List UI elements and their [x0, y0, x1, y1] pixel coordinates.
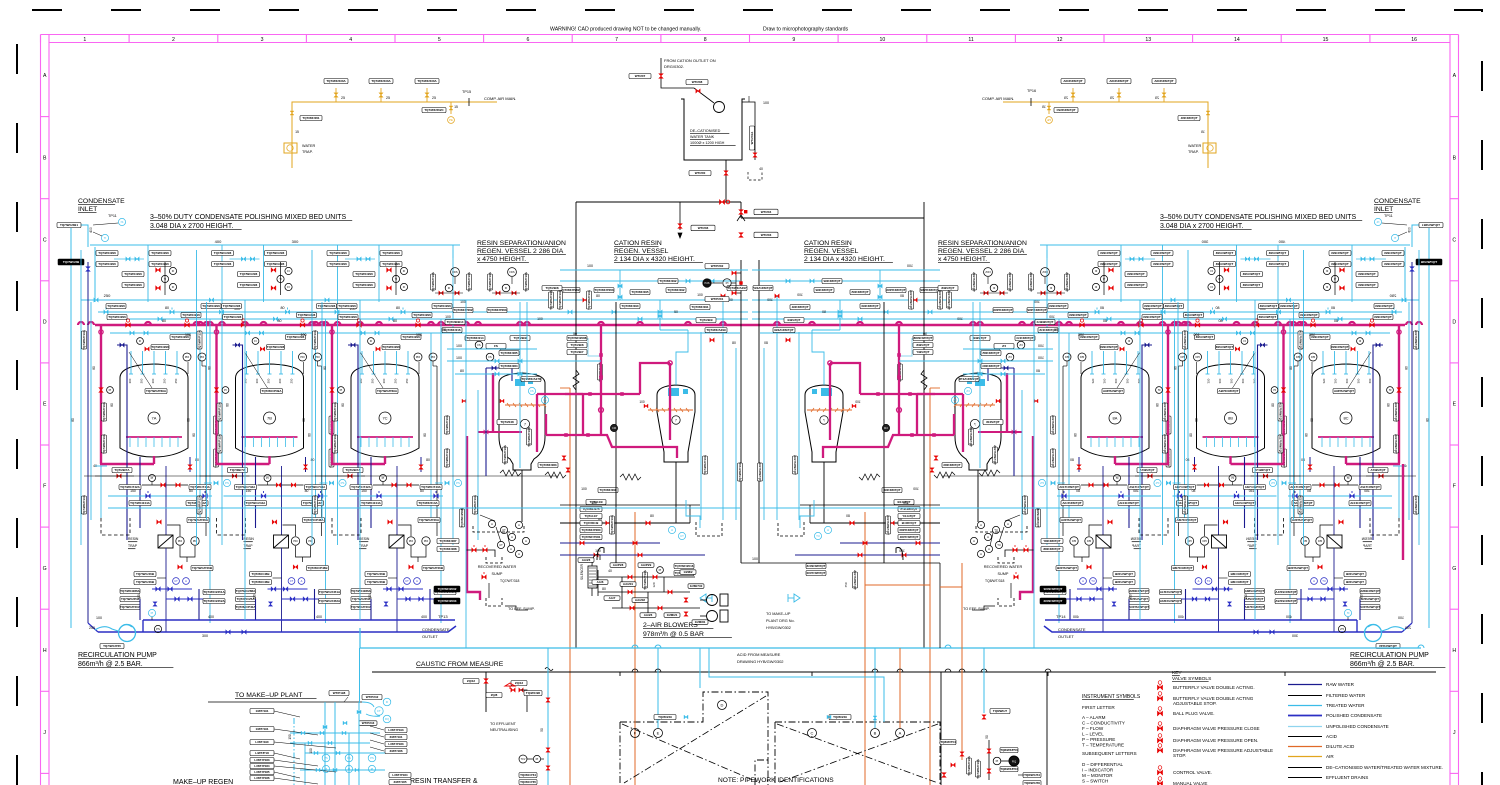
effluent line	[939, 590, 941, 648]
label TQ/WC/765	[519, 780, 537, 785]
svg-text:2 134 DIA x 4320 HEIGHT.: 2 134 DIA x 4320 HEIGHT.	[614, 256, 695, 263]
block top headers	[576, 201, 741, 203]
svg-text:WT/P242: WT/P242	[366, 695, 379, 699]
svg-text:WATER TANK: WATER TANK	[690, 135, 715, 139]
branch 680	[679, 202, 681, 230]
label WT/208	[686, 80, 708, 85]
valve	[653, 575, 657, 579]
svg-text:11: 11	[968, 37, 973, 43]
svg-text:FT: FT	[377, 709, 381, 713]
valve	[684, 715, 688, 719]
svg-text:TQ8/WC/54: TQ8/WC/54	[1024, 773, 1040, 777]
svg-text:5: 5	[438, 37, 441, 43]
label AA/26	[640, 613, 656, 618]
svg-text:TP15: TP15	[462, 90, 471, 94]
pink drawing border (no bottom; cropped)	[41, 34, 1459, 36]
valve	[1157, 696, 1162, 701]
svg-text:B: B	[43, 155, 47, 161]
svg-text:M – MONITOR: M – MONITOR	[1082, 773, 1113, 778]
svg-text:3.048 DIA x 2700 HEIGHT.: 3.048 DIA x 2700 HEIGHT.	[150, 223, 233, 230]
svg-text:L/WT/P183: L/WT/P183	[388, 742, 404, 746]
svg-text:H: H	[43, 648, 47, 654]
svg-text:RECOVERED WATER: RECOVERED WATER	[478, 565, 517, 569]
make-up network (cyan)	[208, 701, 362, 703]
svg-text:WT/P202: WT/P202	[711, 264, 724, 268]
svg-text:FIQ: FIQ	[1012, 759, 1016, 763]
label L/WT/P183	[385, 742, 407, 747]
svg-text:RESIN SEPARATION/ANION: RESIN SEPARATION/ANION	[477, 240, 566, 247]
valve	[724, 171, 729, 176]
svg-text:C: C	[43, 237, 47, 243]
valve	[320, 731, 324, 735]
label L/WT/P186	[250, 776, 274, 781]
instrument PI	[345, 765, 352, 772]
svg-text:TREATED WATER: TREATED WATER	[1326, 703, 1365, 708]
label TQ7/WF/P13A	[967, 755, 972, 776]
label TQ8/WF/P63	[1000, 767, 1018, 772]
valve	[982, 715, 986, 719]
svg-text:COMP. AIR MAIN.: COMP. AIR MAIN.	[484, 96, 516, 101]
valve	[873, 716, 877, 720]
svg-text:4: 4	[349, 37, 352, 43]
label 1/2M/21	[664, 613, 680, 618]
instrument PdS	[703, 279, 711, 287]
svg-text:DILUTE ACID: DILUTE ACID	[1326, 744, 1355, 749]
svg-text:DE–CATIONISED WATER/TREATED: DE–CATIONISED WATER/TREATED WATER MIXTUR…	[1326, 765, 1443, 770]
svg-text:PdS: PdS	[705, 281, 710, 285]
instrument 7A	[148, 412, 160, 424]
svg-text:2Q/13: 2Q/13	[515, 681, 524, 685]
caustic feed to make-up grid	[359, 648, 361, 703]
svg-text:1000Ø x 1200 HIGH: 1000Ø x 1200 HIGH	[690, 141, 725, 145]
label WT/201A	[750, 126, 755, 150]
svg-text:CONTROL VALVE.: CONTROL VALVE.	[1173, 770, 1212, 775]
label WT/P198	[329, 691, 349, 696]
svg-text:A – ALARM: A – ALARM	[1082, 715, 1106, 720]
svg-text:3/WT/186: 3/WT/186	[389, 749, 402, 753]
X diagonals	[622, 724, 760, 783]
svg-text:TQ/W/249: TQ/W/249	[833, 715, 847, 719]
svg-text:SUMP: SUMP	[492, 572, 503, 576]
svg-text:TO MAKE–UP: TO MAKE–UP	[766, 612, 791, 616]
svg-text:C: C	[811, 731, 814, 736]
svg-text:WT/203: WT/203	[761, 233, 772, 237]
svg-text:TQ/WC/765: TQ/WC/765	[520, 780, 536, 784]
label L/WT/P185	[250, 770, 274, 775]
svg-text:REGEN. VESSEL 2 286 DIA: REGEN. VESSEL 2 286 DIA	[938, 248, 1025, 255]
svg-text:P – PRESSURE: P – PRESSURE	[1082, 737, 1115, 742]
svg-text:SUMP: SUMP	[998, 572, 1009, 576]
svg-text:1/WT/191: 1/WT/191	[255, 709, 268, 713]
instrument PI	[533, 755, 540, 762]
svg-text:INLET: INLET	[78, 206, 97, 213]
instrument F	[631, 729, 640, 738]
svg-text:3: 3	[261, 37, 264, 43]
svg-text:D – DIFFERENTIAL: D – DIFFERENTIAL	[1082, 762, 1124, 767]
svg-text:TRAP.: TRAP.	[1188, 150, 1199, 154]
ruler rows	[41, 116, 50, 118]
instrument 7B	[264, 412, 276, 424]
instrument PI	[322, 765, 329, 772]
svg-text:TQ/W/249: TQ/W/249	[658, 715, 672, 719]
valve	[342, 731, 346, 735]
label 1/WT/191	[250, 727, 274, 732]
label 1/2M/81	[692, 620, 708, 625]
svg-text:TQ7/WF/P13A: TQ7/WF/P13A	[976, 758, 980, 779]
svg-text:1/2M/740: 1/2M/740	[690, 584, 703, 588]
label 2Q/13	[511, 681, 527, 686]
svg-text:G: G	[43, 566, 47, 572]
instrument PI	[368, 765, 375, 772]
svg-text:8: 8	[704, 37, 707, 43]
svg-text:WT/236: WT/236	[698, 226, 709, 230]
svg-text:RECIRCULATION PUMP: RECIRCULATION PUMP	[78, 652, 157, 659]
valve	[628, 590, 632, 594]
svg-text:TQ8/W/754: TQ8/W/754	[940, 740, 956, 744]
svg-text:TO EFF. SUMP.: TO EFF. SUMP.	[508, 607, 535, 611]
svg-text:50: 50	[540, 728, 544, 732]
svg-text:OUTLET: OUTLET	[1058, 634, 1074, 639]
label TQ/W/249	[829, 715, 851, 720]
svg-text:CAUSTIC FROM MEASURE: CAUSTIC FROM MEASURE	[416, 661, 504, 668]
svg-text:PI: PI	[659, 568, 662, 572]
label L/WT/P184	[389, 773, 411, 778]
svg-text:A: A	[899, 731, 902, 736]
svg-text:NEUTRALISING: NEUTRALISING	[490, 728, 518, 732]
valve	[1157, 726, 1162, 731]
svg-text:978m³/h @ 0.5 BAR: 978m³/h @ 0.5 BAR	[643, 631, 704, 638]
svg-text:DIAPHRAGM VALVE PRESSURE OP: DIAPHRAGM VALVE PRESSURE OPEN.	[1173, 738, 1258, 743]
svg-text:FROM CATION OUTLET ON: FROM CATION OUTLET ON	[664, 58, 716, 63]
svg-text:CATION RESIN: CATION RESIN	[614, 240, 662, 247]
svg-text:13: 13	[1145, 37, 1151, 43]
svg-text:CONDENSATE: CONDENSATE	[1058, 627, 1086, 632]
valve	[678, 224, 683, 229]
valve	[333, 768, 337, 772]
svg-text:INSTRUMENT SYMBOLS: INSTRUMENT SYMBOLS	[1082, 694, 1141, 700]
valve	[684, 612, 688, 616]
svg-text:L/WT/P183: L/WT/P183	[254, 758, 270, 762]
svg-text:DRAWING HYB/GW/0302: DRAWING HYB/GW/0302	[737, 659, 784, 664]
svg-text:FI: FI	[386, 700, 389, 704]
svg-text:Draw to microphotography st: Draw to microphotography standards	[763, 27, 848, 33]
svg-text:1/WT/191: 1/WT/191	[255, 727, 268, 731]
svg-text:RESIN SEPARATION/ANION: RESIN SEPARATION/ANION	[938, 240, 1027, 247]
label WT/P243	[359, 721, 377, 726]
svg-text:8C: 8C	[1343, 416, 1348, 421]
svg-text:2: 2	[172, 37, 175, 43]
instrument FI	[383, 698, 391, 706]
label TQ8/WF/P50	[1000, 748, 1018, 753]
svg-text:HYB/GW/0302: HYB/GW/0302	[766, 626, 791, 630]
label TQ7/WF/P13A	[976, 758, 981, 779]
svg-text:16: 16	[1411, 37, 1417, 43]
svg-text:WATER: WATER	[302, 144, 316, 148]
svg-text:150: 150	[288, 734, 292, 740]
svg-text:L/WT/P18: L/WT/P18	[255, 751, 269, 755]
svg-text:DE–CATIONISED: DE–CATIONISED	[690, 129, 721, 133]
valve	[658, 606, 662, 610]
svg-text:100: 100	[752, 557, 758, 561]
svg-text:INLET: INLET	[1374, 206, 1393, 213]
label AA/201	[620, 582, 636, 587]
svg-text:7B: 7B	[267, 416, 272, 421]
svg-text:WATER: WATER	[1188, 144, 1202, 148]
svg-text:AIR: AIR	[1326, 754, 1334, 759]
svg-text:PI: PI	[371, 767, 374, 771]
svg-text:x 4750 HEIGHT.: x 4750 HEIGHT.	[477, 256, 526, 263]
svg-text:PI: PI	[325, 767, 328, 771]
svg-text:MANUAL VALVE: MANUAL VALVE	[1173, 781, 1207, 785]
svg-text:ACID FROM MEASURE: ACID FROM MEASURE	[737, 652, 781, 657]
svg-text:TCV: TCV	[521, 758, 526, 761]
svg-text:L/WT/P184: L/WT/P184	[392, 773, 408, 777]
svg-text:3.048 DIA x 2700 HEIGHT.: 3.048 DIA x 2700 HEIGHT.	[1160, 223, 1243, 230]
svg-text:2Q/12: 2Q/12	[467, 679, 476, 683]
X-box make-up regen tanks	[620, 692, 768, 785]
svg-text:3/WT/185: 3/WT/185	[393, 780, 406, 784]
label TQ8/WC/56	[1023, 781, 1041, 785]
de-cationised water tank	[681, 99, 745, 160]
valve	[659, 74, 664, 79]
svg-text:DIAPHRAGM VALVE PRESSURE CL: DIAPHRAGM VALVE PRESSURE CLOSE	[1173, 726, 1260, 731]
valve	[546, 748, 550, 752]
svg-text:TQ8/WC/7: TQ8/WC/7	[993, 709, 1007, 713]
svg-text:80: 80	[602, 587, 606, 591]
valve	[827, 715, 831, 719]
svg-text:J: J	[43, 730, 46, 736]
svg-text:866m³/h @ 2.5 BAR.: 866m³/h @ 2.5 BAR.	[78, 661, 143, 668]
label 1/WT/191	[250, 709, 274, 714]
label TQ/WC/96	[524, 691, 542, 696]
valve	[1157, 685, 1162, 690]
svg-text:STOP.: STOP.	[1173, 753, 1186, 758]
label L/WT/190	[250, 740, 274, 745]
instrument FT	[375, 707, 383, 715]
valve	[357, 710, 361, 714]
svg-text:L/WT/P185: L/WT/P185	[254, 770, 270, 774]
svg-text:6: 6	[526, 37, 529, 43]
instrument PI	[657, 567, 664, 574]
svg-text:TQ7/WT/318: TQ7/WT/318	[500, 579, 520, 583]
label 1/2M/2	[680, 570, 696, 575]
svg-text:7C: 7C	[382, 416, 387, 421]
svg-text:FIRST LETTER: FIRST LETTER	[1082, 705, 1115, 710]
svg-text:TQ/WC/96: TQ/WC/96	[526, 691, 540, 695]
svg-text:TP13: TP13	[438, 614, 448, 619]
svg-text:D: D	[43, 319, 47, 325]
svg-text:AA/P29: AA/P29	[641, 563, 652, 567]
svg-text:PS: PS	[324, 756, 328, 760]
acid header (black)	[372, 671, 1436, 673]
svg-text:D: D	[721, 703, 724, 708]
svg-text:15: 15	[1323, 37, 1329, 43]
svg-text:TO EFF. SUMP.: TO EFF. SUMP.	[963, 607, 990, 611]
svg-text:REGEN. VESSEL: REGEN. VESSEL	[614, 248, 669, 255]
svg-text:PI: PI	[536, 757, 539, 761]
instrument PI	[993, 757, 1001, 765]
svg-text:REGEN. VESSEL 2 286 DIA: REGEN. VESSEL 2 286 DIA	[477, 248, 564, 255]
instrument D	[718, 701, 727, 710]
acid transfer orange	[865, 584, 930, 586]
svg-text:BUTTERFLY VALVE DOUBLE ACTI: BUTTERFLY VALVE DOUBLE ACTING.	[1173, 685, 1255, 690]
label WT/236	[691, 225, 715, 231]
svg-text:7: 7	[615, 37, 618, 43]
svg-text:AA/P28: AA/P28	[613, 563, 624, 567]
svg-text:TRAP.: TRAP.	[302, 150, 313, 154]
valve	[1157, 738, 1162, 743]
svg-text:866m³/h @ 2.5 BAR.: 866m³/h @ 2.5 BAR.	[1350, 661, 1415, 668]
svg-text:WT/P243: WT/P243	[362, 721, 375, 725]
svg-text:A: A	[43, 73, 47, 79]
svg-text:RECOVERED WATER: RECOVERED WATER	[984, 565, 1023, 569]
label WT/200	[689, 171, 711, 176]
svg-text:S – SWITCH: S – SWITCH	[1082, 779, 1108, 784]
svg-text:TQ/WC/764: TQ/WC/764	[520, 773, 536, 777]
instrument A	[896, 729, 905, 738]
svg-text:DRG/0302.: DRG/0302.	[664, 64, 684, 69]
svg-text:1/2M/21: 1/2M/21	[667, 613, 678, 617]
svg-text:8B: 8B	[1228, 416, 1233, 421]
svg-text:J: J	[1453, 730, 1456, 736]
svg-text:7A: 7A	[152, 416, 157, 421]
valve	[343, 721, 347, 725]
valve	[546, 698, 550, 702]
label AA/P28	[610, 563, 626, 568]
svg-text:KEY: KEY	[1172, 670, 1182, 676]
acid valve cluster x548	[547, 648, 549, 785]
instrument PI	[723, 279, 731, 287]
valve	[308, 741, 312, 745]
label TQ8/WC/54	[1023, 773, 1041, 778]
svg-text:F: F	[43, 484, 46, 490]
svg-text:3–50% DUTY CONDENSATE POLISHIN: 3–50% DUTY CONDENSATE POLISHING MIXED BE…	[1160, 214, 1357, 221]
valve	[484, 679, 489, 684]
svg-text:A: A	[1453, 73, 1457, 79]
valve	[546, 766, 550, 770]
caustic main (cyan)	[360, 628, 1421, 648]
label TQ8/W/754	[940, 740, 956, 745]
valve	[732, 271, 736, 275]
label L/WT/P193	[385, 728, 407, 733]
svg-text:TP14: TP14	[1056, 614, 1066, 619]
valve	[656, 716, 660, 720]
svg-text:PI: PI	[726, 281, 729, 285]
valve	[1157, 711, 1162, 716]
svg-text:TQ8/WF/P63: TQ8/WF/P63	[1000, 767, 1018, 771]
label WT/P202	[705, 264, 729, 269]
svg-text:RECIRCULATION PUMP: RECIRCULATION PUMP	[1350, 652, 1429, 659]
valve	[355, 768, 359, 772]
svg-text:3–50% DUTY CONDENSATE POLISHIN: 3–50% DUTY CONDENSATE POLISHING MIXED BE…	[150, 214, 347, 221]
instrument PS	[322, 754, 330, 762]
svg-text:WT/201A: WT/201A	[750, 131, 754, 145]
svg-text:L/WT/P186: L/WT/P186	[254, 776, 270, 780]
valve	[732, 291, 736, 295]
svg-text:E: E	[43, 402, 47, 408]
valve	[739, 233, 744, 238]
cyan feed drops	[699, 648, 701, 688]
valve	[1157, 781, 1162, 785]
svg-text:WT/200: WT/200	[695, 171, 706, 175]
valve	[684, 598, 688, 602]
make-up grid rows	[290, 732, 380, 734]
svg-text:40: 40	[608, 569, 612, 573]
svg-text:TO MAKE–UP PLANT: TO MAKE–UP PLANT	[235, 692, 302, 699]
svg-text:100: 100	[309, 748, 313, 754]
svg-text:E: E	[1453, 402, 1457, 408]
label 3/WT/185	[389, 780, 411, 785]
svg-text:G: G	[1452, 566, 1456, 572]
instrument PS	[368, 754, 376, 762]
svg-text:AA/6: AA/6	[597, 580, 604, 584]
valve	[987, 749, 991, 753]
svg-text:RAW WATER: RAW WATER	[1326, 682, 1355, 687]
caustic drop cluster	[485, 672, 487, 712]
svg-text:L/WT/P193: L/WT/P193	[388, 728, 404, 732]
svg-text:1: 1	[83, 37, 86, 43]
svg-text:AA/201: AA/201	[623, 582, 634, 586]
svg-text:TQ7/WF/P13A: TQ7/WF/P13A	[967, 755, 971, 776]
svg-text:8A: 8A	[1113, 416, 1118, 421]
svg-text:CATION RESIN: CATION RESIN	[804, 240, 852, 247]
svg-text:PI: PI	[996, 759, 999, 763]
ruler columns	[40, 35, 42, 43]
svg-text:WT/P198: WT/P198	[333, 691, 346, 695]
valve	[753, 153, 757, 157]
valve	[668, 590, 672, 594]
svg-text:B: B	[1453, 155, 1457, 161]
valve	[630, 606, 634, 610]
svg-text:40: 40	[759, 167, 763, 171]
valve	[628, 575, 632, 579]
svg-text:TQ8/WF/P50: TQ8/WF/P50	[1000, 748, 1018, 752]
valve	[328, 741, 332, 745]
svg-text:ADJUSTABLE STOP.: ADJUSTABLE STOP.	[1173, 701, 1217, 706]
valve	[987, 769, 991, 773]
svg-text:VALVE SYMBOLS: VALVE SYMBOLS	[1172, 676, 1211, 682]
svg-text:1/2M/81: 1/2M/81	[695, 620, 706, 624]
svg-text:2Q/8: 2Q/8	[491, 693, 498, 697]
blower discharge east	[741, 562, 940, 564]
svg-text:FILTERED WATER: FILTERED WATER	[1326, 693, 1366, 698]
svg-text:9: 9	[792, 37, 795, 43]
valve	[519, 688, 523, 692]
blower units	[707, 595, 718, 606]
svg-text:TP11: TP11	[1384, 214, 1393, 218]
svg-text:WARNING! CAD produced drawi: WARNING! CAD produced drawing NOT to be …	[550, 27, 701, 33]
valve	[942, 773, 947, 778]
svg-text:CONDENSATE: CONDENSATE	[422, 627, 450, 632]
instrument 8A	[1109, 412, 1121, 424]
svg-text:WT/P201: WT/P201	[711, 297, 724, 301]
label L/WT/P18	[250, 751, 274, 756]
tank right pipe	[742, 102, 755, 160]
label AA/P29	[638, 563, 654, 568]
svg-text:TO EFFLUENT: TO EFFLUENT	[490, 722, 517, 726]
valve	[960, 752, 964, 756]
svg-text:100: 100	[763, 101, 769, 105]
svg-text:C: C	[1452, 237, 1456, 243]
label WT/P242	[362, 695, 382, 700]
svg-text:F: F	[1453, 484, 1456, 490]
svg-text:AA/26: AA/26	[582, 558, 591, 562]
label TQ8/WC/7	[990, 709, 1010, 714]
svg-text:AA/202: AA/202	[635, 598, 646, 602]
acid measure area bottom right	[983, 648, 985, 713]
svg-text:SILENCER: SILENCER	[580, 563, 584, 580]
svg-text:UNPOLISHED CONDENSATE: UNPOLISHED CONDENSATE	[1326, 724, 1389, 729]
